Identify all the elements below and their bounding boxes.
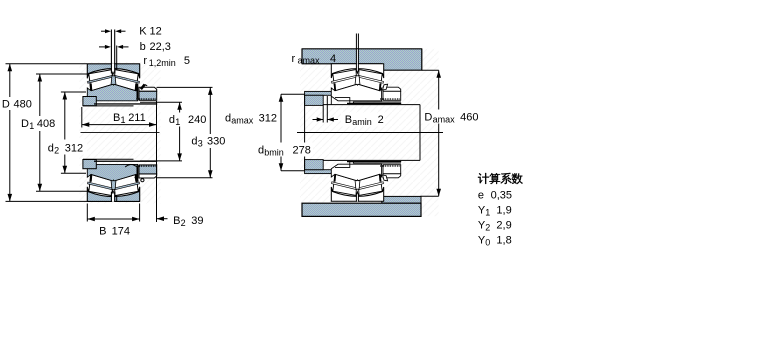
svg-text:39: 39 [191, 215, 203, 227]
svg-text:d: d [191, 136, 197, 148]
svg-text:B: B [99, 226, 106, 238]
svg-text:d: d [225, 113, 231, 125]
label d bmin 278 [255, 143, 313, 157]
label B amin 2 [341, 113, 385, 127]
svg-text:1,8: 1,8 [496, 234, 511, 246]
svg-text:1,9: 1,9 [496, 204, 511, 216]
dimension D 480 [6, 63, 88, 65]
dimension B_amin 2 [322, 105, 324, 122]
svg-text:d: d [169, 114, 175, 126]
svg-text:460: 460 [460, 112, 478, 124]
label D amax 460 [421, 110, 483, 124]
svg-text:bmin: bmin [264, 148, 284, 158]
washer tab curl (bottom) [141, 179, 144, 182]
axis line right [297, 132, 443, 134]
label D 480 [0, 97, 34, 110]
svg-text:r: r [143, 55, 147, 67]
svg-text:5: 5 [184, 55, 190, 67]
right housing+shaft bottom half [305, 160, 420, 174]
label D1 408 [18, 116, 60, 131]
svg-text:1,2min: 1,2min [149, 58, 176, 68]
right bearing top half [331, 63, 401, 103]
svg-text:amin: amin [352, 117, 372, 127]
table title (calculation factors, CJK glyph paths) [478, 173, 523, 184]
dimension d2 312 [61, 91, 86, 93]
svg-text:408: 408 [37, 118, 55, 130]
svg-text:K: K [139, 25, 147, 37]
svg-text:312: 312 [259, 113, 277, 125]
dimension d_amax 312 [281, 93, 305, 95]
svg-text:B: B [173, 215, 180, 227]
right bearing bottom half [331, 162, 401, 202]
dimension b 22,3 arrows [99, 46, 108, 48]
svg-text:312: 312 [65, 142, 83, 154]
svg-text:480: 480 [14, 99, 32, 111]
svg-text:amax: amax [298, 56, 321, 66]
svg-text:1: 1 [121, 115, 126, 125]
svg-text:22,3: 22,3 [150, 41, 171, 53]
dimension B 174 [86, 204, 88, 222]
svg-text:b: b [140, 41, 146, 53]
housing bottom (right drawing) [382, 196, 421, 203]
dimension d1 240 [140, 101, 182, 103]
svg-text:2: 2 [378, 114, 384, 126]
svg-text:2: 2 [485, 222, 490, 232]
left bearing bottom half (mirrored) [83, 159, 157, 202]
svg-text:D: D [21, 118, 29, 130]
right drawing hatched canvas [300, 49, 439, 216]
left drawing hatched canvas [80, 62, 161, 204]
label d1 240 [166, 113, 208, 127]
washer tab bend arc (bottom) [125, 165, 137, 168]
svg-text:4: 4 [330, 53, 336, 65]
svg-text:278: 278 [293, 145, 311, 157]
dimension B2 39 leader [157, 218, 168, 220]
svg-text:211: 211 [128, 112, 146, 124]
svg-text:330: 330 [207, 136, 225, 148]
label d2 312 [45, 140, 87, 155]
svg-text:3: 3 [198, 139, 203, 149]
bearing inner face to shaft (right drawing) [330, 96, 332, 104]
dimension K 12 arrows [101, 30, 109, 32]
svg-text:B: B [113, 112, 120, 124]
dimension D_amax 460 [422, 69, 439, 71]
right housing+shaft top half [305, 91, 420, 105]
svg-text:d: d [48, 142, 54, 154]
svg-text:D: D [424, 112, 432, 124]
svg-text:B: B [345, 114, 352, 126]
left bearing top half [83, 63, 157, 106]
dimension B1 211 [81, 107, 83, 128]
svg-text:e: e [478, 189, 484, 201]
svg-text:2: 2 [181, 218, 186, 228]
lubrication hole rod above housing (right drawing) [357, 49, 358, 63]
axis line left [81, 132, 160, 134]
dimension D1 408 [36, 73, 87, 75]
svg-text:1: 1 [485, 207, 490, 217]
svg-text:amax: amax [433, 115, 456, 125]
svg-text:2: 2 [54, 145, 59, 155]
svg-text:0: 0 [485, 237, 490, 247]
svg-text:1: 1 [175, 117, 180, 127]
svg-text:12: 12 [150, 25, 162, 37]
lock washer tab (bottom) [136, 177, 138, 182]
label B1 211 [110, 110, 148, 124]
shaft left end face / d_bmin line [304, 95, 306, 169]
svg-text:174: 174 [112, 226, 130, 238]
svg-text:d: d [258, 145, 264, 157]
lock washer tab (top) [141, 84, 145, 89]
svg-text:amax: amax [231, 116, 254, 126]
svg-text:0,35: 0,35 [491, 189, 512, 201]
svg-text:D: D [2, 99, 10, 111]
dimension d3 330 [157, 86, 213, 88]
svg-text:1: 1 [29, 121, 34, 131]
svg-text:240: 240 [188, 114, 206, 126]
lubrication hole rod above ring [110, 30, 112, 64]
label d3 330 [188, 134, 228, 148]
svg-text:2,9: 2,9 [496, 219, 511, 231]
housing top (right drawing) [302, 49, 422, 70]
shaft right end face [419, 105, 421, 161]
svg-text:r: r [292, 53, 296, 65]
